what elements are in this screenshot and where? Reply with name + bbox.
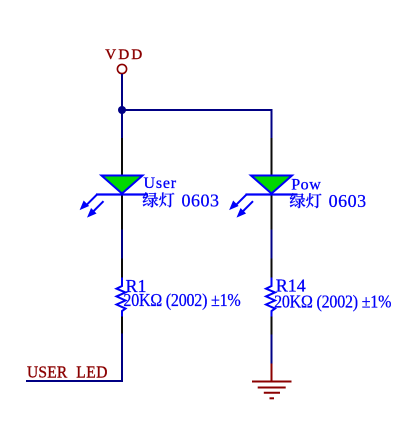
label 绿灯 0603 (User)	[143, 191, 220, 211]
junction node VDD net	[118, 106, 126, 114]
label 绿灯 0603 (Pow)	[290, 191, 367, 211]
wire R14 to ground	[271, 335, 273, 365]
resistor R14	[266, 259, 275, 336]
LED User (green 0603)	[82, 138, 149, 231]
resistor R1	[117, 259, 126, 335]
svg-text:20KΩ (2002) ±1%: 20KΩ (2002) ±1%	[274, 292, 391, 312]
svg-text:20KΩ (2002) ±1%: 20KΩ (2002) ±1%	[123, 290, 240, 310]
svg-text:0603: 0603	[329, 191, 367, 211]
svg-text:VDD: VDD	[105, 47, 144, 63]
wire junction down to User LED	[121, 109, 123, 139]
LED Pow (green 0603)	[231, 138, 298, 231]
svg-text:Pow: Pow	[291, 177, 321, 194]
wire R1 to USER LED net label	[26, 334, 122, 382]
wire User LED to R1	[121, 230, 123, 260]
wire horizontal VDD net	[121, 109, 273, 111]
power port VDD	[105, 47, 144, 74]
ground	[252, 364, 292, 399]
wire Pow LED to R14	[271, 230, 273, 260]
wire VDD stub to junction	[121, 74, 123, 111]
svg-text:0603: 0603	[182, 191, 220, 211]
wire right branch down to Pow LED	[271, 109, 273, 139]
svg-text:User: User	[144, 175, 177, 192]
